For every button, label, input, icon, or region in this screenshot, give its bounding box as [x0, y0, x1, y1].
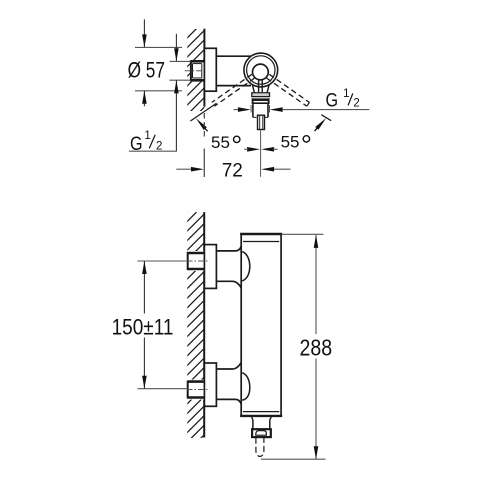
svg-text:72: 72 — [222, 161, 243, 182]
svg-text:150±11: 150±11 — [112, 315, 174, 340]
svg-text:1: 1 — [343, 88, 349, 100]
svg-text:55: 55 — [281, 132, 300, 151]
svg-text:Ø 57: Ø 57 — [128, 59, 165, 83]
svg-text:288: 288 — [300, 335, 333, 361]
svg-text:55: 55 — [211, 133, 230, 152]
svg-text:1: 1 — [144, 130, 150, 142]
svg-text:G: G — [130, 133, 143, 155]
svg-text:G: G — [326, 89, 339, 111]
svg-text:2: 2 — [156, 141, 162, 153]
svg-text:2: 2 — [353, 98, 359, 110]
